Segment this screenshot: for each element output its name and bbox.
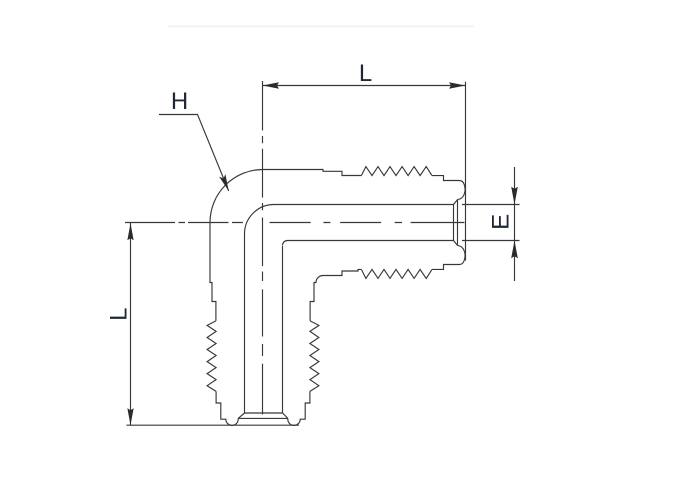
- svg-text:L: L: [106, 308, 133, 321]
- body top contour of horizontal leg: [263, 170, 361, 176]
- dimension L left: extension line: [126, 424, 299, 426]
- thread V-leg left: [207, 321, 216, 392]
- dimension E: extension bottom: [462, 240, 520, 242]
- V-leg end face: [238, 417, 288, 419]
- arrowhead E top: [511, 187, 518, 205]
- bore bend arc: [245, 205, 275, 235]
- bore top line: [274, 204, 454, 206]
- H-leg end face: [457, 200, 459, 246]
- bore inner fillet: [283, 241, 288, 246]
- H-leg tip chamfer: [454, 200, 458, 246]
- arrowhead leader H: [219, 174, 229, 191]
- leader line H: [159, 115, 229, 192]
- thread H-leg bottom: [361, 269, 432, 278]
- faint top divider band: [168, 25, 474, 27]
- arrowhead L left bottom: [127, 408, 133, 425]
- bore bottom line: [288, 240, 454, 242]
- dimension L top: line: [263, 85, 466, 87]
- svg-text:E: E: [487, 214, 514, 230]
- elbow outer arc: [210, 170, 263, 223]
- V-leg left tip contour: [216, 391, 238, 425]
- bore right line: [282, 246, 284, 413]
- svg-text:L: L: [359, 60, 372, 87]
- bore left line: [244, 234, 246, 414]
- arrowhead L left top: [127, 223, 133, 240]
- thread H-leg top: [361, 167, 432, 176]
- centerline vertical: [262, 81, 264, 415]
- dimension E: line: [514, 167, 516, 281]
- centerline horizontal: [125, 222, 464, 224]
- H-leg top tip contour: [432, 176, 465, 200]
- arrowhead L top left: [263, 82, 280, 88]
- arrowhead L top right: [449, 82, 466, 88]
- H-leg bottom tip contour: [432, 245, 465, 269]
- dimension L top: extension line: [465, 82, 467, 261]
- svg-text:H: H: [171, 88, 188, 115]
- thread V-leg right: [310, 321, 319, 392]
- dimension E: extension top: [462, 204, 520, 206]
- arrowhead E bottom: [511, 241, 518, 259]
- body left contour: [210, 223, 216, 321]
- V-leg right tip contour: [288, 391, 310, 425]
- V-leg tip chamfer: [238, 413, 288, 418]
- body bottom contour of horizontal leg: [323, 269, 361, 275]
- dimension L left: line: [130, 223, 132, 425]
- body right contour of vertical leg: [310, 276, 323, 321]
